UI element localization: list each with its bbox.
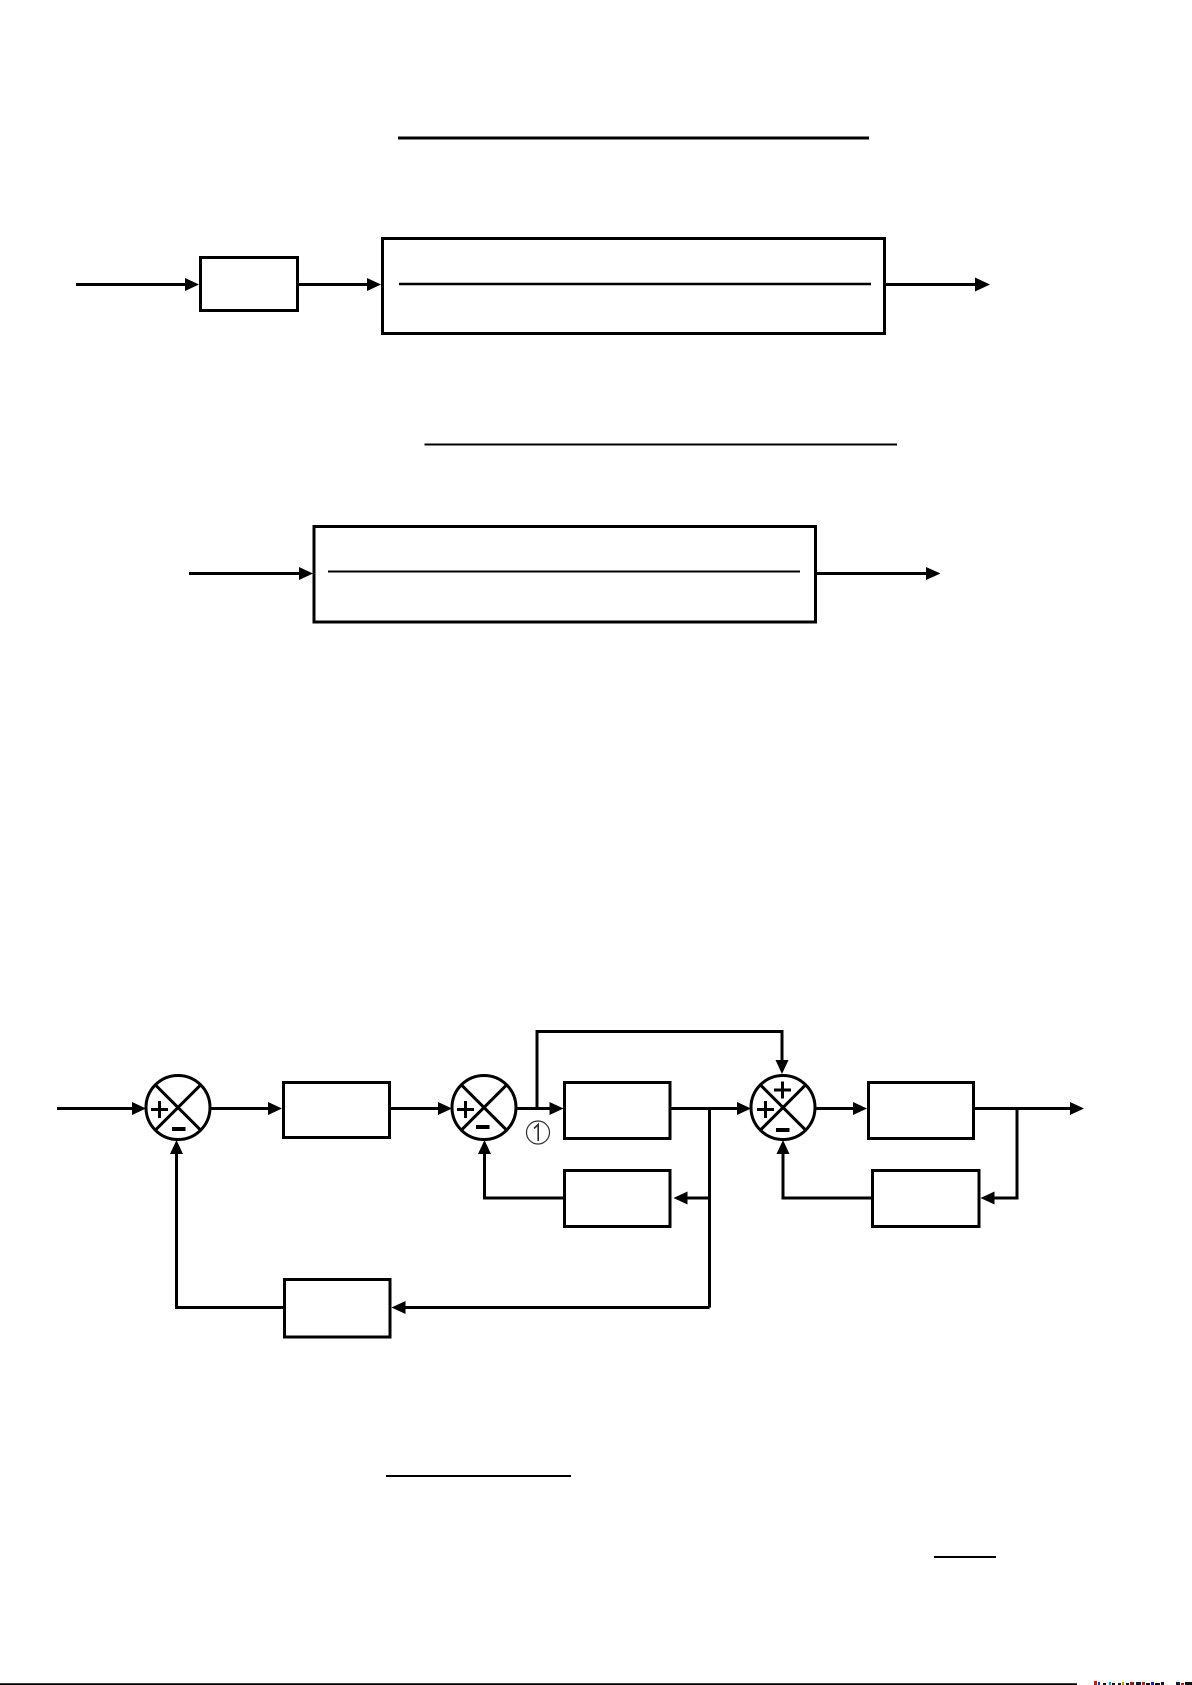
underline (equation rule) third xyxy=(386,1475,571,1477)
wire: outer feedback bottom run xyxy=(404,1306,710,1309)
block: small box diagram 1 xyxy=(201,258,298,311)
wire: S1 to block G1 xyxy=(210,1107,269,1110)
plus sign S3 top xyxy=(774,1082,791,1099)
fraction bar inside big box diagram 1 xyxy=(399,283,871,286)
plus sign S3 left xyxy=(757,1101,774,1118)
summing junction S1 xyxy=(146,1076,210,1140)
wire: output arrow diagram 2 xyxy=(817,572,928,575)
minus sign S2 xyxy=(476,1125,490,1129)
block: wide transfer-function box diagram 1 xyxy=(383,239,885,334)
wire: H2 output up into S3 xyxy=(783,1153,871,1198)
wire: output arrow with junction at x=1017 xyxy=(974,1107,1071,1110)
wire: inner feedback right drop xyxy=(994,1109,1017,1199)
short underline (fraction rule) bottom right xyxy=(934,1556,996,1558)
wire: small box to big box diagram 1 xyxy=(299,283,368,286)
block H1 (under G2) xyxy=(565,1171,671,1227)
plus sign S2 xyxy=(457,1101,474,1118)
block G2 xyxy=(565,1083,671,1139)
wire: G2 to S3 with junction at x=709 xyxy=(670,1107,738,1110)
block: wide transfer-function box diagram 2 xyxy=(314,527,816,623)
wire: input arrow of feedback diagram xyxy=(57,1107,133,1110)
summing junction S3 xyxy=(751,1076,815,1140)
wire: branch into H1 xyxy=(687,1197,710,1200)
wire: output arrow diagram 1 xyxy=(886,283,976,286)
block H3 (outer feedback) xyxy=(285,1280,391,1338)
watermark text fragment bottom right xyxy=(1094,1681,1192,1685)
minus sign S1 xyxy=(172,1127,186,1131)
wire: input arrow of diagram 2 xyxy=(189,572,300,575)
wire: H3 output left and up into S1 xyxy=(177,1153,284,1308)
block G1 xyxy=(284,1083,390,1138)
wire: input arrow of diagram 1 xyxy=(76,283,186,286)
block H2 (under G3) xyxy=(873,1171,980,1227)
wire: middle feedback drop at x=709 xyxy=(708,1109,711,1308)
wire: H1 output up into S2 xyxy=(485,1153,564,1198)
page bottom rule xyxy=(0,1683,1077,1685)
fraction bar inside box diagram 2 xyxy=(328,571,800,573)
node label circled 1 xyxy=(527,1121,550,1144)
plus sign S1 xyxy=(151,1101,168,1118)
wire: S3 to block G3 xyxy=(815,1107,854,1110)
minus sign S3 xyxy=(776,1128,790,1132)
wire: bypass riser from node up xyxy=(537,1032,782,1109)
wire: G1 to S2 xyxy=(391,1107,439,1110)
underline (equation rule) top xyxy=(398,137,869,140)
block G3 xyxy=(869,1083,974,1139)
wire: S2 to block G2 with junction node xyxy=(516,1107,551,1110)
summing junction S2 xyxy=(452,1076,516,1140)
underline (equation rule) second xyxy=(425,444,898,446)
